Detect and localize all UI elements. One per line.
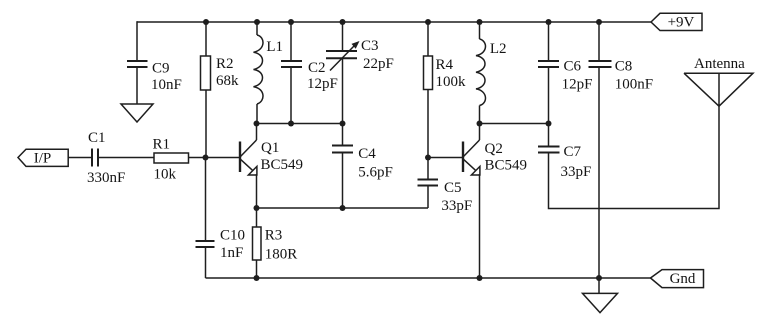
svg-text:Gnd: Gnd	[670, 271, 696, 287]
node Q1 emitter	[254, 205, 260, 211]
wire C9 upper stub	[136, 21, 138, 60]
svg-text:C6: C6	[564, 59, 582, 75]
wire C3 lower stub	[342, 59, 344, 124]
wire L1 lower stub	[256, 104, 258, 124]
svg-text:BC549: BC549	[261, 157, 304, 173]
svg-text:100k: 100k	[436, 74, 467, 90]
port flag I/P	[18, 149, 68, 166]
wire C10 vertical run	[205, 158, 207, 241]
wire C1 to R1	[98, 157, 154, 159]
wire C2 upper stub	[290, 22, 292, 60]
wire C2 lower stub	[290, 68, 292, 124]
resistor R1	[154, 153, 189, 163]
node top rail R2	[203, 19, 209, 25]
svg-text:L2: L2	[490, 41, 507, 57]
svg-text:12pF: 12pF	[307, 76, 338, 92]
node top rail C2	[288, 19, 294, 25]
svg-text:C5: C5	[444, 180, 462, 196]
node emitter row C4	[340, 205, 346, 211]
svg-text:12pF: 12pF	[562, 77, 593, 93]
svg-text:L1: L1	[266, 39, 283, 55]
wire C3 upper stub	[342, 22, 344, 51]
wire C6 upper stub	[548, 22, 550, 60]
svg-text:C4: C4	[358, 146, 376, 162]
capacitor C8	[589, 61, 612, 67]
wire C7 lower stub and antenna feed	[549, 106, 720, 208]
svg-text:C3: C3	[361, 38, 379, 54]
capacitor C2	[281, 61, 302, 67]
wire R4 lower stub	[427, 90, 429, 158]
svg-text:I/P: I/P	[34, 150, 52, 166]
capacitor C9	[127, 61, 148, 67]
wire L2 lower stub	[479, 106, 481, 124]
node ground rail C8	[596, 275, 602, 281]
wire R4 upper stub	[427, 22, 429, 56]
port flag Gnd	[651, 270, 704, 288]
ground (bottom right)	[583, 293, 618, 312]
svg-text:10k: 10k	[154, 167, 177, 183]
wire bottom ground rail	[206, 277, 651, 279]
wire C5 lower stub	[427, 187, 429, 209]
wire R2 upper stub	[205, 22, 207, 56]
svg-text:+9V: +9V	[668, 15, 695, 31]
wire ground stub below rail	[598, 278, 600, 293]
node tank1 C2	[288, 121, 294, 127]
wire R1 to Q1 base	[189, 157, 240, 159]
wire R2 lower stub	[205, 90, 207, 158]
wire C6 lower stub	[548, 68, 550, 124]
svg-text:5.6pF: 5.6pF	[358, 165, 393, 181]
svg-text:180R: 180R	[265, 247, 298, 263]
node top rail C8	[596, 19, 602, 25]
svg-text:Antenna: Antenna	[694, 56, 745, 72]
resistor R3	[253, 227, 262, 260]
wire emitter row (Q1 C4 C5)	[257, 207, 429, 209]
node top rail L1	[254, 19, 260, 25]
wire top supply rail	[137, 21, 651, 23]
node tank2 C6 C7	[546, 121, 552, 127]
wire R3 lower stub	[256, 260, 258, 278]
node top rail L2	[477, 19, 483, 25]
wire input lead	[68, 157, 92, 159]
node tank1 C3 C4	[340, 121, 346, 127]
arrow of variable capacitor C3	[352, 41, 360, 49]
ground (below C9)	[121, 104, 153, 122]
wire tank node row (L1 C2 C3 collector Q1)	[257, 123, 343, 125]
svg-text:R1: R1	[153, 137, 171, 153]
svg-text:C7: C7	[564, 144, 582, 160]
svg-text:Q2: Q2	[485, 141, 503, 157]
wire L2 upper stub	[479, 22, 481, 39]
resistor R2	[201, 56, 211, 90]
wire C4 lower stub	[342, 154, 344, 209]
capacitor C3 variable	[326, 51, 357, 58]
svg-text:33pF: 33pF	[561, 164, 592, 180]
resistor R4	[424, 56, 433, 90]
svg-text:C8: C8	[615, 59, 633, 75]
svg-text:1nF: 1nF	[220, 245, 243, 261]
wire tank2 node row (L2 collector Q2 to C6)	[480, 123, 549, 125]
svg-text:C1: C1	[88, 130, 106, 146]
node tank2 left	[477, 121, 483, 127]
svg-text:C9: C9	[152, 60, 170, 76]
wire R3 upper stub	[256, 208, 258, 227]
wire C8 lower run to ground rail	[598, 68, 600, 278]
transistor Q1	[240, 124, 257, 209]
svg-text:R3: R3	[265, 228, 283, 244]
node ground rail R3	[254, 275, 260, 281]
svg-text:68k: 68k	[216, 73, 239, 89]
capacitor C4	[332, 146, 353, 153]
node ground rail Q2 emitter	[477, 275, 483, 281]
port flag +9V	[651, 13, 702, 30]
svg-text:330nF: 330nF	[87, 170, 125, 186]
capacitor C1	[92, 149, 98, 167]
transistor Q2	[463, 124, 480, 279]
node tank1 left	[254, 121, 260, 127]
svg-text:22pF: 22pF	[363, 56, 394, 72]
node top rail C3	[340, 19, 346, 25]
svg-text:BC549: BC549	[485, 157, 528, 173]
capacitor C6	[538, 61, 559, 67]
svg-text:10nF: 10nF	[151, 77, 182, 93]
inductor L2	[476, 39, 485, 106]
svg-text:C2: C2	[308, 60, 326, 76]
svg-text:R4: R4	[436, 57, 454, 73]
node Q1 base	[203, 155, 209, 161]
wire C9 lower stub	[136, 68, 138, 104]
antenna	[684, 73, 753, 106]
wire C8 upper stub	[598, 22, 600, 60]
svg-text:C10: C10	[220, 228, 245, 244]
wire C10 lower stub	[205, 248, 207, 278]
node top rail R4	[425, 19, 431, 25]
wire L1 upper stub	[256, 22, 258, 35]
wire C5 upper stub	[427, 158, 429, 180]
capacitor C10	[196, 241, 215, 247]
node top rail C6	[546, 19, 552, 25]
capacitor C5	[418, 180, 439, 186]
capacitor C7	[538, 147, 560, 153]
svg-text:100nF: 100nF	[615, 77, 653, 93]
svg-text:R2: R2	[216, 56, 234, 72]
node Q2 base	[425, 155, 431, 161]
inductor L1	[254, 35, 263, 104]
svg-text:33pF: 33pF	[441, 198, 472, 214]
svg-text:Q1: Q1	[261, 140, 279, 156]
wire C7 upper stub	[548, 124, 550, 147]
wire C4 upper stub	[342, 124, 344, 146]
wire Q2 base row	[428, 157, 463, 159]
